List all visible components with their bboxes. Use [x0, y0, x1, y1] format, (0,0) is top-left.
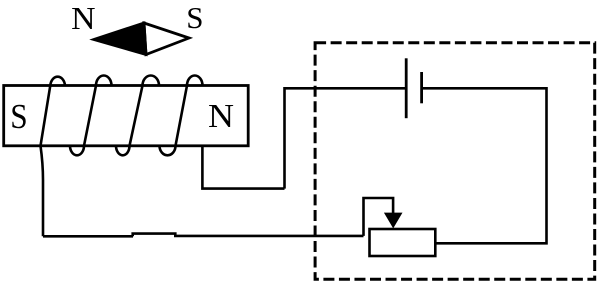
wire: bottom left segment: [43, 235, 133, 238]
wire: riser to slider branch: [364, 198, 394, 236]
battery negative plate (short): [420, 72, 423, 103]
compass needle N half (black): [94, 23, 146, 55]
wire: coil right lead: [202, 146, 284, 189]
switch jog segment: [133, 234, 176, 237]
coil turn 1: [41, 77, 66, 146]
solenoid iron core: [4, 86, 249, 146]
coil turn 2: [70, 76, 112, 156]
wire: left coil lead down: [41, 146, 44, 237]
wire: battery left to coil lead riser: [285, 88, 406, 188]
battery positive plate (long): [405, 58, 408, 118]
svg-text:S: S: [186, 0, 203, 35]
svg-text:S: S: [10, 97, 27, 136]
rheostat R: [370, 229, 436, 256]
dashed control box: [315, 43, 595, 280]
rheostat slider arrow: [384, 213, 403, 229]
coil turn 3: [116, 76, 159, 156]
wire: rheostat right to battery right: [423, 88, 547, 243]
coil turn 4: [160, 76, 203, 156]
svg-text:N: N: [71, 0, 95, 36]
compass needle S half (white): [144, 23, 189, 55]
svg-text:N: N: [208, 98, 234, 135]
wire: bottom segment to rheostat branch: [174, 235, 364, 238]
